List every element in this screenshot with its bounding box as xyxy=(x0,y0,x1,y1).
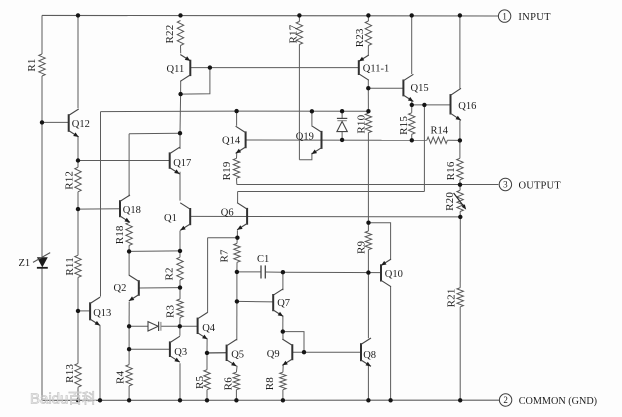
svg-text:Q5: Q5 xyxy=(231,349,244,360)
wire Q10 collector to ground xyxy=(390,286,392,400)
wire node to R13 xyxy=(77,311,79,364)
wire Q15 collector to rail xyxy=(411,15,413,74)
svg-text:R9: R9 xyxy=(355,240,367,254)
wire Q15 emitter to node xyxy=(411,101,413,105)
svg-text:OUTPUT: OUTPUT xyxy=(519,180,562,191)
wire R12 node to Q18 base xyxy=(78,208,120,210)
wire node217 to R21 xyxy=(459,217,461,288)
svg-text:Q15: Q15 xyxy=(411,83,429,94)
wire R2-R3 junction xyxy=(179,280,181,299)
resistor R15 xyxy=(398,113,415,135)
svg-text:3: 3 xyxy=(503,180,508,190)
transistor Q13 xyxy=(90,297,111,325)
transistor Q11 xyxy=(167,55,191,82)
wire node to R4 xyxy=(128,349,130,364)
wire top supply rail xyxy=(42,14,498,17)
terminal 3 OUTPUT xyxy=(499,178,561,191)
svg-text:Q14: Q14 xyxy=(222,135,241,146)
node C1 right xyxy=(281,270,285,274)
wire Q17 collector riser xyxy=(179,133,181,149)
node Q7 base tap xyxy=(235,299,239,303)
wire output line xyxy=(237,184,499,186)
node gnd-Q13 xyxy=(98,398,102,402)
svg-text:R12: R12 xyxy=(63,171,75,190)
wire R10 to R9 node xyxy=(367,133,369,223)
wire R8 to ground xyxy=(282,390,284,401)
resistor R21 xyxy=(446,288,464,308)
svg-text:Q7: Q7 xyxy=(277,298,290,309)
resistor R5 xyxy=(194,370,210,390)
node Q1 emitter xyxy=(178,249,182,253)
resistor R8 xyxy=(264,372,286,390)
wire R18 bottom node xyxy=(128,245,130,275)
wire Q11 collector down xyxy=(180,81,182,94)
node Q11 collector xyxy=(178,92,182,96)
resistor R1 xyxy=(26,54,45,76)
wire node to Q3 collector xyxy=(179,326,181,336)
node R20-R21 xyxy=(458,215,462,219)
node Q17 collector tap xyxy=(178,131,182,135)
wire Q5 base xyxy=(207,352,227,354)
wire Q11 base tie-down xyxy=(181,68,210,95)
transistor Q5 xyxy=(227,339,244,366)
wire Q9 emitter to R8 xyxy=(282,365,284,372)
node C1 left xyxy=(235,270,239,274)
transistor Q9 xyxy=(267,339,293,365)
wire Q14 emitter to R19 xyxy=(236,152,238,158)
svg-text:Q11-1: Q11-1 xyxy=(363,64,389,75)
node gnd-R21 xyxy=(458,398,462,402)
node R9 top xyxy=(366,221,370,225)
wire node111 to Q14 collector xyxy=(236,111,238,126)
wire R22 to Q11 emitter xyxy=(180,46,182,54)
wire D1 to Q4 base xyxy=(161,325,197,327)
wire node to R15 xyxy=(411,105,413,113)
wire R17 long drop xyxy=(298,45,300,160)
wire Q11 node to Q17 node xyxy=(179,94,182,133)
terminal 1 INPUT xyxy=(498,10,551,23)
transistor Q12 xyxy=(69,109,90,137)
resistor R17 xyxy=(287,22,302,45)
wire Q3 base xyxy=(129,348,170,350)
wire Q16 emitter to node140 xyxy=(459,120,461,140)
wire R16 to output line xyxy=(459,180,461,185)
wire Q16 base drop xyxy=(423,105,425,192)
wire Q2 base xyxy=(139,287,180,289)
node rail-R17 xyxy=(297,13,301,17)
wire Q2 emitter down xyxy=(128,302,130,327)
wire C1 right lead xyxy=(265,271,283,273)
wire Q16 collector to rail xyxy=(459,15,461,88)
svg-text:Q13: Q13 xyxy=(93,308,111,319)
transistor Q8 xyxy=(361,338,376,366)
node rail-Q12 xyxy=(76,13,80,17)
wire R9 to Q10base node xyxy=(367,250,369,273)
node Q3 base tap xyxy=(127,347,131,351)
wire Q4 emitter to node xyxy=(206,339,208,353)
wire node to R5 xyxy=(206,353,208,370)
svg-text:Q17: Q17 xyxy=(173,158,191,169)
transistor Q15 xyxy=(403,74,428,101)
node gnd-Q10 xyxy=(388,398,392,402)
wire node to R9 xyxy=(367,223,369,231)
wire Q8 emitter to ground xyxy=(367,365,369,400)
svg-text:R4: R4 xyxy=(114,370,126,384)
wire R1 to Q12-base node xyxy=(41,76,43,122)
resistor R23 xyxy=(354,21,372,47)
wire node140 to R16 xyxy=(459,140,461,158)
resistor R10 xyxy=(355,113,371,133)
svg-text:Q12: Q12 xyxy=(72,119,90,130)
wire Q7 emitter to node xyxy=(282,316,284,332)
wire R23 to Q11-1 emitter xyxy=(367,46,369,56)
wire node to Q8 collector xyxy=(367,273,369,339)
node bias-D2 xyxy=(340,109,344,113)
transistor Q4 xyxy=(198,312,216,339)
svg-text:Q16: Q16 xyxy=(458,101,476,112)
resistor R3 xyxy=(164,299,183,318)
wire Q14-Q19 base line to R14 xyxy=(246,139,427,141)
wire Q15 emitter to Q16 base xyxy=(412,104,451,106)
resistor R13 xyxy=(64,363,81,387)
transistor Q16 xyxy=(451,88,477,120)
wire Q11 to Q11-1 base line xyxy=(190,67,358,69)
wire Q12 collector to rail xyxy=(77,15,79,108)
wire Q3 emitter to ground xyxy=(179,363,181,400)
node Q10 base xyxy=(366,270,370,274)
transistor Q14 xyxy=(222,126,246,153)
transistor Q2 xyxy=(114,275,139,301)
svg-text:R17: R17 xyxy=(287,24,299,43)
wire Q1 emitter down xyxy=(179,231,181,251)
node bias-Q19 xyxy=(310,109,314,113)
wire Q9 base to Q8 base xyxy=(292,351,361,353)
resistor R4 xyxy=(114,365,132,386)
diode D2 xyxy=(337,118,347,131)
wire Q19 collector riser xyxy=(311,111,313,125)
resistor R16 xyxy=(445,158,463,180)
svg-text:Q8: Q8 xyxy=(363,350,376,361)
capacitor C1 xyxy=(257,254,269,279)
resistor R20 xyxy=(444,190,466,211)
wire D2 top lead xyxy=(341,111,343,118)
wire Q17 emitter to Q1 collector xyxy=(179,172,181,201)
node gnd-R13 xyxy=(76,398,80,402)
wire node to R7 xyxy=(236,238,238,244)
svg-text:R23: R23 xyxy=(354,28,366,47)
wire C1 left lead xyxy=(237,271,261,273)
resistor R14 xyxy=(427,126,449,144)
svg-text:R13: R13 xyxy=(64,364,76,383)
node gnd-R4 xyxy=(127,398,131,402)
wire Q18 collector to node xyxy=(129,132,180,135)
node gnd-R6 xyxy=(234,398,238,402)
node R11 bottom xyxy=(76,309,80,313)
wire R17 jog to Q19 emitter xyxy=(299,153,312,160)
node Q9 base xyxy=(302,350,306,354)
wire node to Q5 collector xyxy=(236,301,238,340)
svg-text:R15: R15 xyxy=(398,116,410,135)
wire node to R2 xyxy=(179,251,181,258)
svg-text:1: 1 xyxy=(502,11,507,21)
node Q16 base xyxy=(422,103,426,107)
transistor Q10 xyxy=(381,259,403,287)
transistor Q17 xyxy=(170,147,192,174)
svg-text:R22: R22 xyxy=(164,25,176,44)
svg-text:R16: R16 xyxy=(445,161,457,180)
transistor Q11-1 xyxy=(359,55,389,80)
node R16 top xyxy=(458,138,462,142)
wire Q13 emitter to ground xyxy=(99,325,101,400)
watermark xyxy=(30,391,96,408)
node R12 bottom xyxy=(76,207,80,211)
wire R13 to ground xyxy=(77,387,79,400)
svg-text:R14: R14 xyxy=(431,126,449,137)
svg-text:Q3: Q3 xyxy=(174,347,187,358)
node rail-Q15 xyxy=(410,13,414,17)
node Q11 base xyxy=(208,65,212,69)
zener Z1 xyxy=(19,253,51,269)
wire R14 to node xyxy=(447,139,460,141)
wire R3 to D1 node xyxy=(179,318,181,327)
node output-R20 xyxy=(458,183,462,187)
svg-text:R3: R3 xyxy=(164,304,176,318)
transistor Q19 xyxy=(296,126,322,154)
wire Q6 collector to Q16 base node xyxy=(238,191,425,193)
wire Q5 emitter to R6 xyxy=(235,366,238,372)
wire R17 top xyxy=(298,15,300,21)
wire R7 to C1 node xyxy=(236,262,238,272)
svg-text:R10: R10 xyxy=(355,114,367,133)
wire Q6 emitter to node xyxy=(236,230,238,237)
svg-text:R19: R19 xyxy=(221,161,233,180)
wire Z1 column upper xyxy=(41,122,43,257)
transistor Q1 xyxy=(164,203,190,231)
wire node D1 to node Q3base xyxy=(128,326,130,349)
node gnd-R5 xyxy=(205,398,209,402)
node Q15 emitter xyxy=(410,103,414,107)
wire ground rail xyxy=(42,399,499,401)
wire C1 right node down to Q7 collector xyxy=(282,272,284,290)
resistor R18 xyxy=(114,222,132,245)
wire Q9 base tie loop xyxy=(283,332,304,353)
resistor R12 xyxy=(63,167,81,192)
wire node to Q9 collector xyxy=(282,332,284,340)
wire R6 to ground xyxy=(235,390,237,401)
wire node88 to node111 xyxy=(367,88,369,111)
resistor R22 xyxy=(164,21,184,46)
wire Q11-1 collector down xyxy=(367,80,369,88)
node Q12 emitter xyxy=(76,158,80,162)
svg-text:Q19: Q19 xyxy=(296,131,314,142)
wire R20 to node217 xyxy=(459,212,461,217)
svg-text:R7: R7 xyxy=(219,249,231,263)
svg-text:Q18: Q18 xyxy=(123,205,141,216)
wire R18 node to Q1 emitter node xyxy=(129,250,180,253)
svg-text:Q11: Q11 xyxy=(167,64,185,75)
node D2 bottom xyxy=(340,138,344,142)
svg-text:Q10: Q10 xyxy=(385,269,403,280)
svg-text:2: 2 xyxy=(503,395,508,405)
wire Q12 emitter to Q17 base xyxy=(78,160,170,162)
svg-text:COMMON (GND): COMMON (GND) xyxy=(519,396,597,407)
svg-text:Baidu: Baidu xyxy=(30,391,68,408)
wire R11 to Q13-base node xyxy=(77,277,79,311)
svg-text:R5: R5 xyxy=(194,375,206,389)
wire R21 to ground xyxy=(459,307,461,401)
wire bias line y111 xyxy=(101,110,369,113)
wire Q1-Q6 base line to R20 node xyxy=(190,215,460,218)
svg-text:Q9: Q9 xyxy=(267,349,280,360)
svg-text:R11: R11 xyxy=(64,257,76,276)
wire Q11-1 collector to Q15 base xyxy=(368,87,403,89)
svg-text:R8: R8 xyxy=(264,377,276,391)
svg-text:C1: C1 xyxy=(257,254,269,265)
wire Q7 base xyxy=(237,300,273,303)
svg-text:Q1: Q1 xyxy=(164,213,177,224)
node R2-R3 xyxy=(178,285,182,289)
wire Q12 base xyxy=(42,121,69,123)
node Q6 emitter xyxy=(235,236,239,240)
node rail-R23 xyxy=(366,13,370,17)
wire R5 to ground xyxy=(206,390,208,401)
wire Q12 emitter down xyxy=(77,137,79,162)
node Q11-1 collector xyxy=(366,86,370,90)
svg-text:R1: R1 xyxy=(26,58,38,71)
transistor Q6 xyxy=(221,203,247,230)
wire D1 left lead xyxy=(129,325,148,327)
wire Q13 base xyxy=(78,310,90,312)
wire Q18 collector riser xyxy=(128,134,130,196)
wire D2 bottom lead xyxy=(341,132,343,140)
resistor R11 xyxy=(64,255,81,277)
wire node to R12 xyxy=(77,161,79,168)
wire R15 to node140 xyxy=(411,134,413,140)
svg-text:R18: R18 xyxy=(114,225,126,244)
resistor R2 xyxy=(164,257,184,280)
svg-text:INPUT: INPUT xyxy=(518,12,551,23)
node Q7 emitter xyxy=(281,329,285,333)
transistor Q18 xyxy=(120,195,141,222)
wire R1 column top xyxy=(41,15,43,54)
wire R19 to output line xyxy=(236,178,238,184)
svg-text:Z1: Z1 xyxy=(19,258,31,269)
wire R4 to ground xyxy=(128,386,130,400)
svg-text:Q6: Q6 xyxy=(221,207,234,218)
node gnd-Q3 xyxy=(178,398,182,402)
node D1 anode xyxy=(127,324,131,328)
node rail-R22 xyxy=(178,13,182,17)
node bias-R10 xyxy=(366,109,370,113)
node bias-Q14 xyxy=(234,109,238,113)
svg-text:Q2: Q2 xyxy=(114,283,127,294)
resistor R6 xyxy=(223,372,240,390)
node Q4 emitter xyxy=(205,351,209,355)
svg-text:R2: R2 xyxy=(164,267,176,280)
resistor R7 xyxy=(219,243,241,262)
node gnd-R8 xyxy=(281,398,285,402)
wire C1 node to Q7base node xyxy=(236,272,238,302)
svg-text:R6: R6 xyxy=(223,377,235,391)
wire node111 to R10 xyxy=(367,111,369,113)
node gnd-Q8 xyxy=(366,398,370,402)
transistor Q3 xyxy=(170,336,187,362)
wire Q10 emitter loop xyxy=(369,223,391,260)
wire Q6 collector riser xyxy=(237,192,239,203)
node rail-Q16 xyxy=(458,13,462,17)
svg-text:Q4: Q4 xyxy=(202,323,216,334)
resistor R9 xyxy=(355,231,371,254)
svg-text:百科: 百科 xyxy=(68,391,96,407)
wire C1 node to Q10 base xyxy=(283,271,381,273)
wire R12 to R11 xyxy=(77,192,79,255)
svg-text:R20: R20 xyxy=(444,192,456,211)
wire Q6 emitter branch xyxy=(208,237,238,239)
wire long vertical x100 xyxy=(100,112,102,297)
node Q3 collector xyxy=(178,324,182,328)
wire output node to R20 xyxy=(459,185,461,191)
svg-text:R21: R21 xyxy=(446,288,458,307)
node R15 bottom xyxy=(410,138,414,142)
diode D1 xyxy=(148,322,161,331)
transistor Q7 xyxy=(273,289,290,317)
node Q12 base tap xyxy=(40,120,44,124)
node R18 bottom xyxy=(127,249,131,253)
terminal 2 COMMON xyxy=(499,394,597,407)
resistor R19 xyxy=(221,158,240,180)
wire Z1 column lower xyxy=(41,268,43,400)
wire R23 top xyxy=(367,15,369,21)
wire Q6-emitter branch vertical xyxy=(207,238,209,313)
